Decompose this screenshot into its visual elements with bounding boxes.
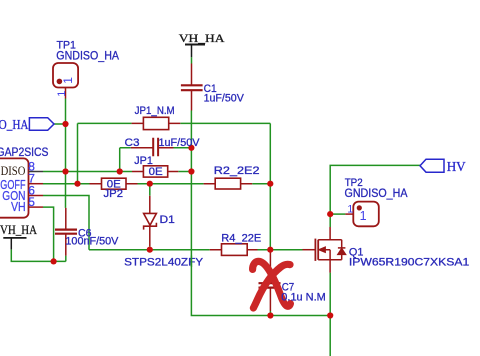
svg-text:GNDISO_HA: GNDISO_HA [345, 188, 408, 200]
testpoint TP2 body [353, 202, 379, 227]
node junction n [51, 258, 57, 264]
node junction e [147, 181, 153, 187]
svg-text:JP1: JP1 [134, 155, 153, 167]
svg-text:1uF/50V: 1uF/50V [204, 93, 245, 105]
capacitor C3 [131, 138, 174, 156]
wire pin6 GON run [43, 196, 89, 250]
wire vertical x=77.5 [77, 123, 79, 183]
wire HV run [330, 165, 420, 227]
global label HV shape [420, 159, 444, 172]
capacitor C1 [181, 64, 203, 111]
resistor JP2 [90, 178, 138, 189]
resistor JP1 [132, 166, 178, 177]
resistor R2 [204, 178, 253, 189]
svg-text:0E: 0E [149, 166, 163, 178]
node junction l [327, 312, 333, 318]
power symbol VH_HA top [185, 45, 205, 58]
resistor JP1_N.M [132, 117, 181, 129]
wire main vertical x=191.4 [191, 111, 330, 316]
node junction b [62, 168, 68, 174]
node junction c [74, 181, 80, 187]
svg-text:DISO: DISO [1, 163, 26, 178]
svg-text:R2_2E2: R2_2E2 [214, 165, 260, 177]
svg-text:VH_HA: VH_HA [179, 31, 225, 45]
svg-text:1: 1 [56, 91, 68, 97]
wire C7 bottom stub [269, 311, 271, 316]
IC pin 7 stub [29, 183, 44, 185]
svg-text:1uF/50V: 1uF/50V [159, 137, 201, 149]
svg-text:1: 1 [61, 77, 75, 84]
DNP cross over C7 [253, 261, 291, 308]
node junction i [267, 181, 273, 187]
node junction m [327, 211, 333, 217]
wire VH bottom row y=261.4 [11, 249, 66, 261]
IC pin 5 stub [29, 206, 44, 208]
wire pin7 row y=183.7 [43, 183, 270, 185]
wire pin5 VH run [43, 207, 54, 261]
svg-text:GNDISO_HA: GNDISO_HA [56, 50, 119, 62]
power symbol VH_HA bottom-left [3, 238, 26, 250]
svg-text:1: 1 [360, 209, 367, 223]
testpoint TP1 body [53, 63, 78, 88]
svg-text:IPW65R190C7XKSA1: IPW65R190C7XKSA1 [349, 257, 469, 269]
global label GNDISO_HA shape [29, 118, 54, 131]
node junction h [188, 168, 194, 174]
testpoint TP1 pin [65, 88, 67, 99]
wire top row y=123.4 [78, 122, 271, 124]
node junction a [62, 121, 68, 127]
svg-text:JP1_N.M: JP1_N.M [135, 105, 175, 117]
svg-text:C3: C3 [125, 137, 140, 149]
capacitor C6 [55, 208, 77, 256]
IC pin 8 stub [29, 171, 44, 173]
testpoint TP1 pad dot [57, 79, 63, 85]
svg-text:5: 5 [28, 195, 35, 209]
svg-text:VH: VH [11, 199, 26, 214]
wire TP2 stub [330, 213, 345, 215]
wire global label to junction [54, 123, 66, 125]
wire vertical x=119.7 [119, 148, 121, 172]
wire pin8 row y=171.5 [43, 171, 191, 173]
wire D1 top stub [149, 184, 151, 196]
wire R4 gate row y=249.7 [89, 249, 303, 251]
testpoint TP2 pad dot [357, 205, 362, 210]
diode D1 STPS2L40ZFY [144, 196, 157, 247]
testpoint TP2 pin [345, 213, 353, 215]
transistor Q1 MOSFET [303, 227, 346, 273]
svg-text:D1: D1 [160, 214, 175, 226]
svg-text:GNDISO_HA: GNDISO_HA [0, 118, 29, 133]
node junction j [267, 247, 273, 253]
capacitor C7 [259, 250, 281, 311]
wire vertical x=270.3 [269, 123, 271, 249]
wire overlay on D1 value [190, 256, 192, 268]
svg-text:JP2: JP2 [104, 188, 124, 200]
IC U1 GAP2SICS body [0, 158, 29, 217]
svg-text:R4_22E: R4_22E [221, 233, 261, 245]
wire C3 row y=147.8 [120, 147, 192, 149]
node junction k [267, 312, 273, 318]
wire D1 bottom stub [149, 246, 151, 249]
wire C6 bottom [65, 256, 67, 262]
node junction g [188, 145, 194, 151]
svg-text:100nF/50V: 100nF/50V [65, 235, 119, 247]
wire C1 power gap [191, 57, 193, 63]
svg-text:GAP2SICS: GAP2SICS [0, 147, 49, 159]
wire Q1 source down [329, 273, 331, 356]
IC pin 6 stub [29, 195, 44, 197]
svg-text:0.1u N.M: 0.1u N.M [281, 292, 326, 304]
svg-text:HV: HV [447, 160, 466, 175]
node junction f [147, 247, 153, 253]
node junction d [117, 168, 123, 174]
resistor R4 [210, 244, 258, 256]
svg-text:1: 1 [347, 203, 353, 215]
svg-text:VH_HA: VH_HA [0, 222, 38, 237]
wire GNDISO_HA vertical TP1 to C6 [65, 99, 67, 208]
